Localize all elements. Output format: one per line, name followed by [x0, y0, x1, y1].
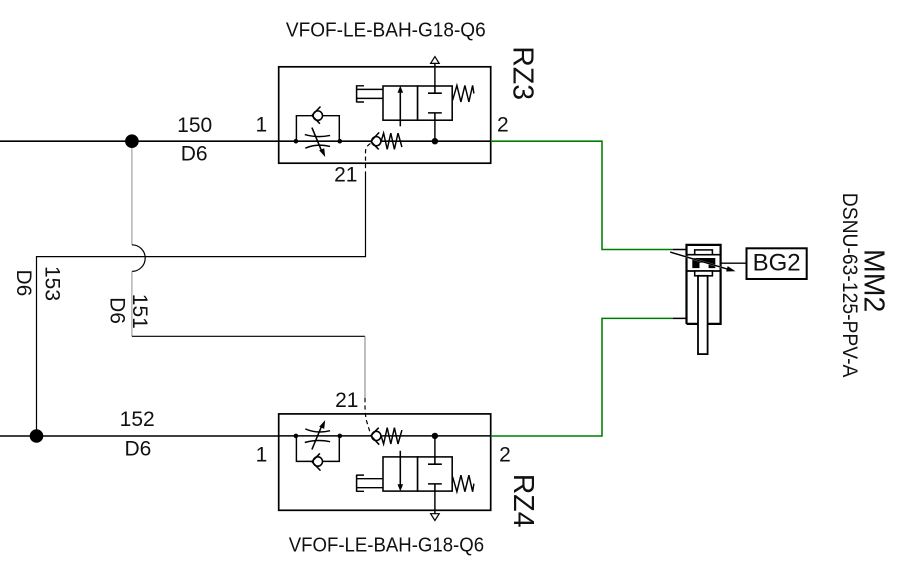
svg-text:RZ4: RZ4: [507, 474, 539, 528]
svg-text:VFOF-LE-BAH-G18-Q6: VFOF-LE-BAH-G18-Q6: [289, 534, 484, 557]
svg-text:MM2: MM2: [857, 249, 889, 312]
svg-text:1: 1: [255, 113, 267, 136]
svg-text:1: 1: [256, 444, 268, 467]
svg-text:D6: D6: [124, 437, 151, 460]
svg-text:D6: D6: [106, 297, 129, 324]
svg-text:2: 2: [499, 444, 511, 467]
svg-text:BG2: BG2: [753, 249, 801, 276]
svg-text:D6: D6: [12, 270, 35, 297]
svg-text:D6: D6: [181, 143, 208, 166]
svg-text:153: 153: [41, 266, 64, 301]
svg-text:RZ3: RZ3: [507, 46, 539, 100]
svg-text:150: 150: [177, 114, 212, 137]
svg-text:21: 21: [335, 389, 358, 412]
svg-text:21: 21: [334, 164, 357, 187]
svg-text:DSNU-63-125-PPV-A: DSNU-63-125-PPV-A: [838, 193, 861, 378]
svg-text:VFOF-LE-BAH-G18-Q6: VFOF-LE-BAH-G18-Q6: [286, 18, 486, 41]
svg-text:151: 151: [128, 294, 151, 329]
svg-text:2: 2: [497, 113, 509, 136]
svg-text:152: 152: [120, 408, 155, 431]
